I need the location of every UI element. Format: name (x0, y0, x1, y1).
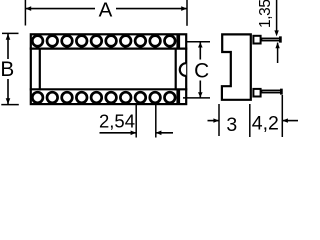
svg-text:1,35: 1,35 (257, 0, 274, 28)
svg-text:C: C (194, 60, 209, 83)
svg-text:4,2: 4,2 (252, 113, 279, 135)
svg-text:3: 3 (226, 114, 237, 136)
svg-text:2,54: 2,54 (99, 111, 135, 132)
svg-text:A: A (99, 0, 113, 22)
svg-text:B: B (0, 58, 14, 81)
